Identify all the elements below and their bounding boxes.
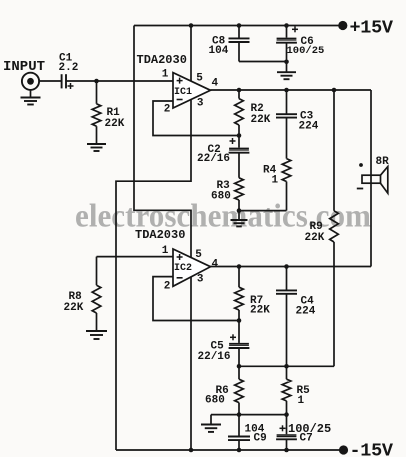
capacitor C5 (electrolytic): [229, 321, 250, 367]
wire R6 node to R5 bottom node: [239, 414, 287, 416]
label C4: [301, 296, 315, 308]
IC2 plus input mark: [177, 254, 183, 260]
capacitor C4: [276, 267, 297, 367]
IC2 pin 3 number: [197, 274, 204, 286]
label R5: [297, 385, 311, 397]
label IC1: [174, 87, 192, 98]
svg-text:IC1: IC1: [174, 87, 192, 98]
IC2 pin 5 number: [195, 249, 202, 261]
label C7 value 100/25: [288, 422, 331, 436]
svg-text:22/16: 22/16: [198, 351, 231, 363]
label R1 value 22K: [105, 118, 125, 130]
svg-text:22/16: 22/16: [197, 153, 230, 165]
resistor R9 feedback: [330, 90, 339, 366]
label R8 value 22K: [64, 302, 84, 314]
C2 plus mark: [230, 138, 236, 144]
watermark electroschematics.com: [75, 199, 371, 235]
label R2: [251, 103, 264, 115]
label 8R: [376, 156, 390, 168]
ground left of C9: [201, 415, 221, 432]
label C8: [212, 36, 226, 48]
svg-text:680: 680: [211, 191, 231, 203]
ground below R8: [86, 331, 107, 339]
label R4: [263, 165, 277, 177]
input jack J1: [22, 73, 39, 90]
svg-text:4: 4: [211, 258, 218, 270]
label C1 value 2.2: [59, 62, 79, 74]
node junction rail / C7: [284, 448, 289, 453]
wire speaker bottom to IC2 output row: [370, 183, 372, 266]
C1 plus mark: [68, 83, 74, 89]
svg-text:22K: 22K: [64, 302, 84, 314]
svg-text:104: 104: [209, 45, 229, 57]
resistor R2: [235, 90, 244, 136]
C7 plus mark: [280, 425, 286, 431]
IC1 pin 4 number: [211, 78, 218, 90]
label +15V: [350, 18, 394, 39]
wire IC1 pin5 to +15V rail: [190, 26, 192, 82]
IC1 pin 3 number: [197, 97, 204, 109]
node junction output2/R7: [237, 264, 242, 269]
wire IC2 pin3 to -15V rail: [190, 277, 192, 450]
label C3: [300, 111, 314, 123]
label IC2: [174, 263, 192, 274]
IC2 minus input mark: [177, 277, 183, 279]
label TDA2030 (IC1): [137, 53, 187, 67]
svg-text:IC2: IC2: [174, 263, 192, 274]
op-amp IC2 triangle: [173, 249, 211, 286]
wire +15V rail left drop to IC2 pin5 feed: [134, 26, 191, 258]
label R9 value 22K: [305, 232, 325, 244]
svg-text:100/25: 100/25: [287, 45, 325, 57]
label R6 value 680: [205, 395, 225, 407]
IC2 pin 1 number: [162, 245, 169, 257]
speaker minus mark: [357, 188, 363, 190]
svg-text:C9: C9: [254, 433, 267, 445]
wire IC2 output row: [211, 266, 372, 268]
capacitor C9: [228, 415, 250, 450]
label C7: [300, 433, 313, 445]
ground below R3: [231, 211, 248, 227]
label R2 value 22K: [251, 114, 271, 126]
node junction R3 bottom / ground: [237, 208, 242, 213]
node junction R5 top: [284, 364, 289, 369]
label C9 value 104: [245, 424, 265, 436]
svg-text:-15V: -15V: [350, 441, 394, 457]
label R4 value 1: [272, 175, 279, 187]
wire IC2 pin2 feedback loop: [153, 277, 239, 321]
node junction R7/C5/pin2 loop: [237, 318, 242, 323]
IC1 minus input mark: [177, 99, 183, 101]
label R1: [107, 107, 121, 119]
op-amp IC1 triangle: [173, 73, 211, 108]
node junction input / R1: [94, 79, 99, 84]
+15V supply rail wire: [134, 25, 341, 27]
svg-text:C7: C7: [300, 433, 313, 445]
label -15V: [350, 441, 394, 457]
resistor R3: [235, 178, 244, 211]
svg-text:22K: 22K: [251, 114, 271, 126]
svg-text:1: 1: [298, 395, 305, 407]
label R8: [69, 291, 83, 303]
resistor R7: [235, 267, 244, 321]
speaker plus dot: [359, 163, 363, 167]
ground below input jack: [21, 90, 41, 105]
node junction output2/C4: [284, 264, 289, 269]
wire R3 bottom to R4 bottom: [239, 210, 287, 212]
label TDA2030 (IC2): [135, 228, 185, 242]
svg-text:8R: 8R: [376, 156, 390, 168]
node junction on +15V rail above C6: [284, 23, 289, 28]
IC2 pin 2 number: [164, 281, 171, 293]
capacitor C8: [229, 26, 250, 62]
wire IC1 pin3 down-left to -15V rail: [116, 99, 191, 450]
label R7 value 22K: [250, 305, 270, 317]
wire R9 bottom to C5 bottom node: [239, 365, 334, 367]
svg-text:1: 1: [162, 245, 169, 257]
ground below C6: [277, 72, 296, 79]
svg-text:TDA2030: TDA2030: [135, 228, 185, 242]
label C6: [301, 36, 314, 48]
svg-text:22K: 22K: [250, 305, 270, 317]
node junction rail / C9: [237, 448, 242, 453]
svg-text:INPUT: INPUT: [3, 59, 45, 75]
svg-text:2: 2: [164, 103, 171, 115]
label R3: [217, 180, 231, 192]
node junction C6 bottom / C8 link: [284, 60, 289, 65]
svg-text:2.2: 2.2: [59, 62, 79, 74]
resistor R1: [92, 81, 101, 144]
label C2: [208, 144, 221, 156]
svg-text:4: 4: [211, 78, 218, 90]
svg-text:3: 3: [197, 97, 204, 109]
IC1 pin 1 number: [162, 69, 169, 81]
svg-text:1: 1: [162, 69, 169, 81]
svg-text:2: 2: [164, 281, 171, 293]
svg-text:TDA2030: TDA2030: [137, 53, 187, 67]
IC1 pin 5 number: [196, 73, 203, 85]
label R7: [250, 295, 263, 307]
label C6 value 100/25: [287, 45, 325, 57]
capacitor C6 (electrolytic): [276, 26, 297, 72]
svg-text:224: 224: [299, 121, 319, 133]
label R9: [310, 221, 323, 233]
capacitor C3: [276, 90, 297, 159]
svg-text:22K: 22K: [105, 118, 125, 130]
svg-text:224: 224: [296, 305, 316, 317]
svg-text:+15V: +15V: [350, 18, 394, 39]
svg-text:680: 680: [205, 395, 225, 407]
label C1: [59, 53, 73, 65]
C5 plus mark: [230, 334, 236, 340]
label INPUT: [3, 59, 45, 75]
wire R8 node to IC2 pin1: [97, 256, 174, 258]
node junction output/R2: [237, 88, 242, 93]
label C5: [211, 341, 225, 353]
resistor R8: [92, 257, 101, 331]
node junction R6 bottom / C9: [237, 412, 242, 417]
svg-text:22K: 22K: [305, 232, 325, 244]
node junction rail / IC2 pin3: [189, 448, 194, 453]
label R6: [216, 385, 229, 397]
-15V supply rail wire: [116, 449, 342, 451]
label R5 value 1: [298, 395, 305, 407]
IC1 plus input mark: [177, 78, 183, 84]
wire jack to C1: [39, 80, 62, 82]
label C3 value 224: [299, 121, 319, 133]
resistor R5: [282, 366, 291, 414]
svg-text:electroschematics.com: electroschematics.com: [75, 199, 371, 235]
IC2 pin 4 number: [211, 258, 218, 270]
label C8 value 104: [209, 45, 229, 57]
svg-text:1: 1: [272, 175, 279, 187]
ground below R1: [87, 144, 106, 151]
wire C1 to IC1 pin1: [66, 80, 173, 82]
wire C8 bottom to C6 bottom: [239, 61, 287, 63]
svg-text:3: 3: [197, 274, 204, 286]
node junction R5 bottom / C7: [284, 412, 289, 417]
speaker 8R: [362, 167, 388, 194]
label C4 value 224: [296, 305, 316, 317]
svg-text:5: 5: [196, 73, 203, 85]
wire R6 bottom node to ground: [211, 414, 239, 416]
wire IC1 pin2 feedback loop: [153, 101, 239, 136]
label R3 value 680: [211, 191, 231, 203]
C6 plus mark: [292, 26, 298, 32]
node junction output/R9: [332, 88, 337, 93]
+15V terminal: [338, 21, 347, 30]
capacitor C2 (electrolytic): [229, 136, 250, 178]
node junction on +15V rail above C8: [237, 23, 242, 28]
IC1 pin 2 number: [164, 103, 171, 115]
node junction R2/C2/pin2 loop: [237, 133, 242, 138]
wire speaker top drop: [370, 90, 372, 176]
label C9: [254, 433, 267, 445]
capacitor C1: [62, 74, 66, 88]
wire IC1 output row to speaker: [211, 89, 372, 91]
capacitor C7 (electrolytic): [276, 415, 297, 450]
node junction C5 bottom / R6 / R9: [237, 364, 242, 369]
label C5 value 22/16: [198, 351, 231, 363]
-15V terminal: [339, 445, 348, 454]
resistor R6: [235, 366, 244, 414]
node junction on +15V rail above IC1 pin5 wire: [189, 23, 194, 28]
node junction output/C3: [284, 88, 289, 93]
svg-text:5: 5: [195, 249, 202, 261]
label C2 value 22/16: [197, 153, 230, 165]
resistor R4: [282, 159, 291, 211]
